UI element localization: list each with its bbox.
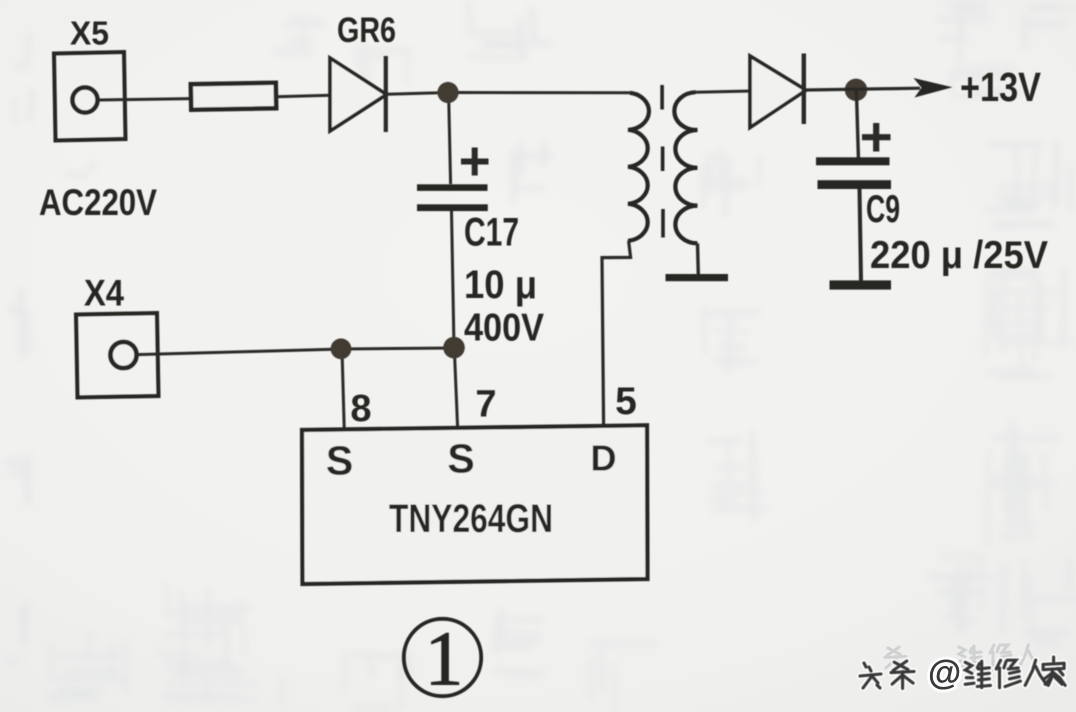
svg-text:5: 5 [615, 380, 637, 423]
svg-text:1: 1 [425, 616, 464, 702]
svg-text:S: S [447, 436, 474, 482]
svg-text:+13V: +13V [960, 64, 1042, 110]
svg-text:X4: X4 [84, 273, 124, 314]
svg-text:220 μ /25V: 220 μ /25V [870, 234, 1048, 277]
svg-text:400V: 400V [464, 307, 544, 350]
svg-text:TNY264GN: TNY264GN [389, 497, 553, 541]
svg-text:8: 8 [350, 388, 371, 430]
svg-text:10 μ: 10 μ [464, 263, 537, 307]
svg-text:S: S [326, 438, 353, 484]
svg-text:C9: C9 [866, 188, 900, 231]
svg-text:AC220V: AC220V [39, 182, 157, 223]
svg-text:@: @ [928, 654, 961, 692]
svg-text:D: D [591, 438, 617, 479]
svg-text:GR6: GR6 [337, 11, 396, 50]
svg-text:C17: C17 [464, 211, 519, 255]
svg-text:7: 7 [475, 384, 496, 426]
svg-text:X5: X5 [70, 15, 109, 52]
